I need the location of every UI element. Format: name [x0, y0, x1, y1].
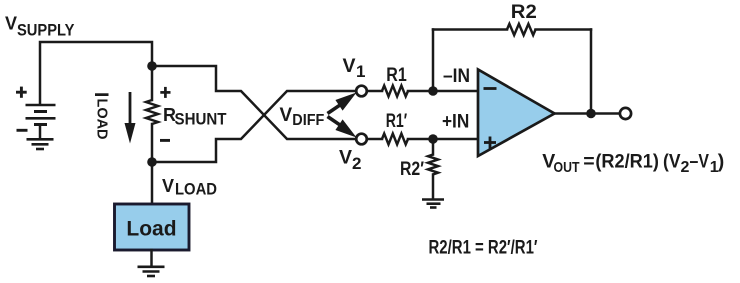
svg-text:–IN: –IN [443, 66, 470, 87]
label V_SUPPLY [5, 14, 75, 40]
svg-text:I: I [90, 92, 111, 97]
label V2 [339, 147, 361, 174]
wire output [555, 112, 621, 115]
svg-text:LOAD: LOAD [94, 99, 111, 140]
svg-text:R2/R1 = R2′/R1′: R2/R1 = R2′/R1′ [429, 238, 538, 259]
battery B1 [26, 105, 56, 139]
terminal V_OUT [620, 108, 631, 119]
resistor R_SHUNT [146, 66, 158, 162]
svg-text:R2′: R2′ [400, 159, 424, 180]
wire load to ground [150, 250, 153, 266]
wire supply top (battery to shunt node) [40, 42, 152, 104]
resistor R2' [428, 139, 438, 199]
ground (battery) [27, 139, 54, 149]
svg-text:V: V [343, 55, 356, 77]
node V_LOAD [147, 157, 157, 167]
svg-text:V: V [339, 147, 352, 169]
svg-text:1: 1 [356, 62, 365, 81]
wire feedback left (from -IN node up) [432, 30, 435, 92]
svg-text:V: V [162, 176, 174, 196]
wire feedback right (down to output node) [590, 30, 593, 115]
shunt plus sign [160, 87, 170, 98]
label V_DIFF [280, 105, 325, 129]
resistor R2 [433, 24, 591, 35]
svg-text:2: 2 [352, 154, 361, 173]
shunt minus sign [160, 139, 170, 142]
svg-text:=: = [583, 151, 594, 173]
op-amp U1 [478, 70, 555, 157]
ground (R2') [422, 200, 444, 208]
svg-text:–V: –V [690, 151, 709, 173]
svg-text:2: 2 [681, 159, 690, 176]
arrow to V1 [328, 93, 357, 114]
svg-text:V: V [5, 14, 17, 34]
resistor R1' [368, 134, 478, 145]
node +IN junction [428, 134, 438, 144]
battery B1 plus sign [16, 87, 27, 98]
wire kelvin top (shunt+ to V2 via cross) [152, 66, 358, 139]
svg-text:OUT: OUT [554, 159, 580, 176]
resistor R1 [368, 86, 478, 97]
svg-text:SHUNT: SHUNT [175, 111, 227, 129]
svg-text:SUPPLY: SUPPLY [17, 21, 75, 40]
terminal V1 [356, 86, 367, 97]
svg-text:R1′: R1′ [386, 111, 408, 132]
label V_OUT equation [542, 151, 724, 177]
svg-text:DIFF: DIFF [292, 112, 324, 129]
svg-text:R1: R1 [386, 65, 407, 86]
svg-text:+IN: +IN [442, 112, 469, 133]
label V1 [343, 55, 366, 81]
label R_SHUNT [163, 105, 227, 129]
battery B1 minus sign [17, 129, 28, 132]
op-amp minus input sign [484, 87, 497, 90]
load box [115, 204, 190, 250]
ground (load) [138, 267, 165, 276]
svg-text:LOAD: LOAD [175, 181, 217, 199]
svg-text:): ) [718, 151, 725, 173]
terminal V2 [356, 134, 367, 145]
node output junction [586, 109, 596, 119]
svg-text:V: V [280, 105, 293, 126]
current arrow I_LOAD [125, 92, 136, 144]
node -IN junction [428, 86, 438, 96]
svg-text:R2: R2 [511, 2, 537, 23]
op-amp plus input sign [484, 137, 496, 149]
label I_LOAD (rotated) [90, 92, 111, 140]
wire kelvin bottom (shunt- to V1 via cross) [152, 91, 358, 162]
svg-text:(R2/R1): (R2/R1) [595, 151, 659, 173]
wire load drop [151, 162, 154, 204]
svg-text:(V: (V [663, 151, 681, 173]
arrow to V2 [328, 117, 357, 138]
svg-text:Load: Load [126, 218, 176, 241]
label V_LOAD [162, 176, 217, 199]
node top of shunt [147, 61, 157, 71]
